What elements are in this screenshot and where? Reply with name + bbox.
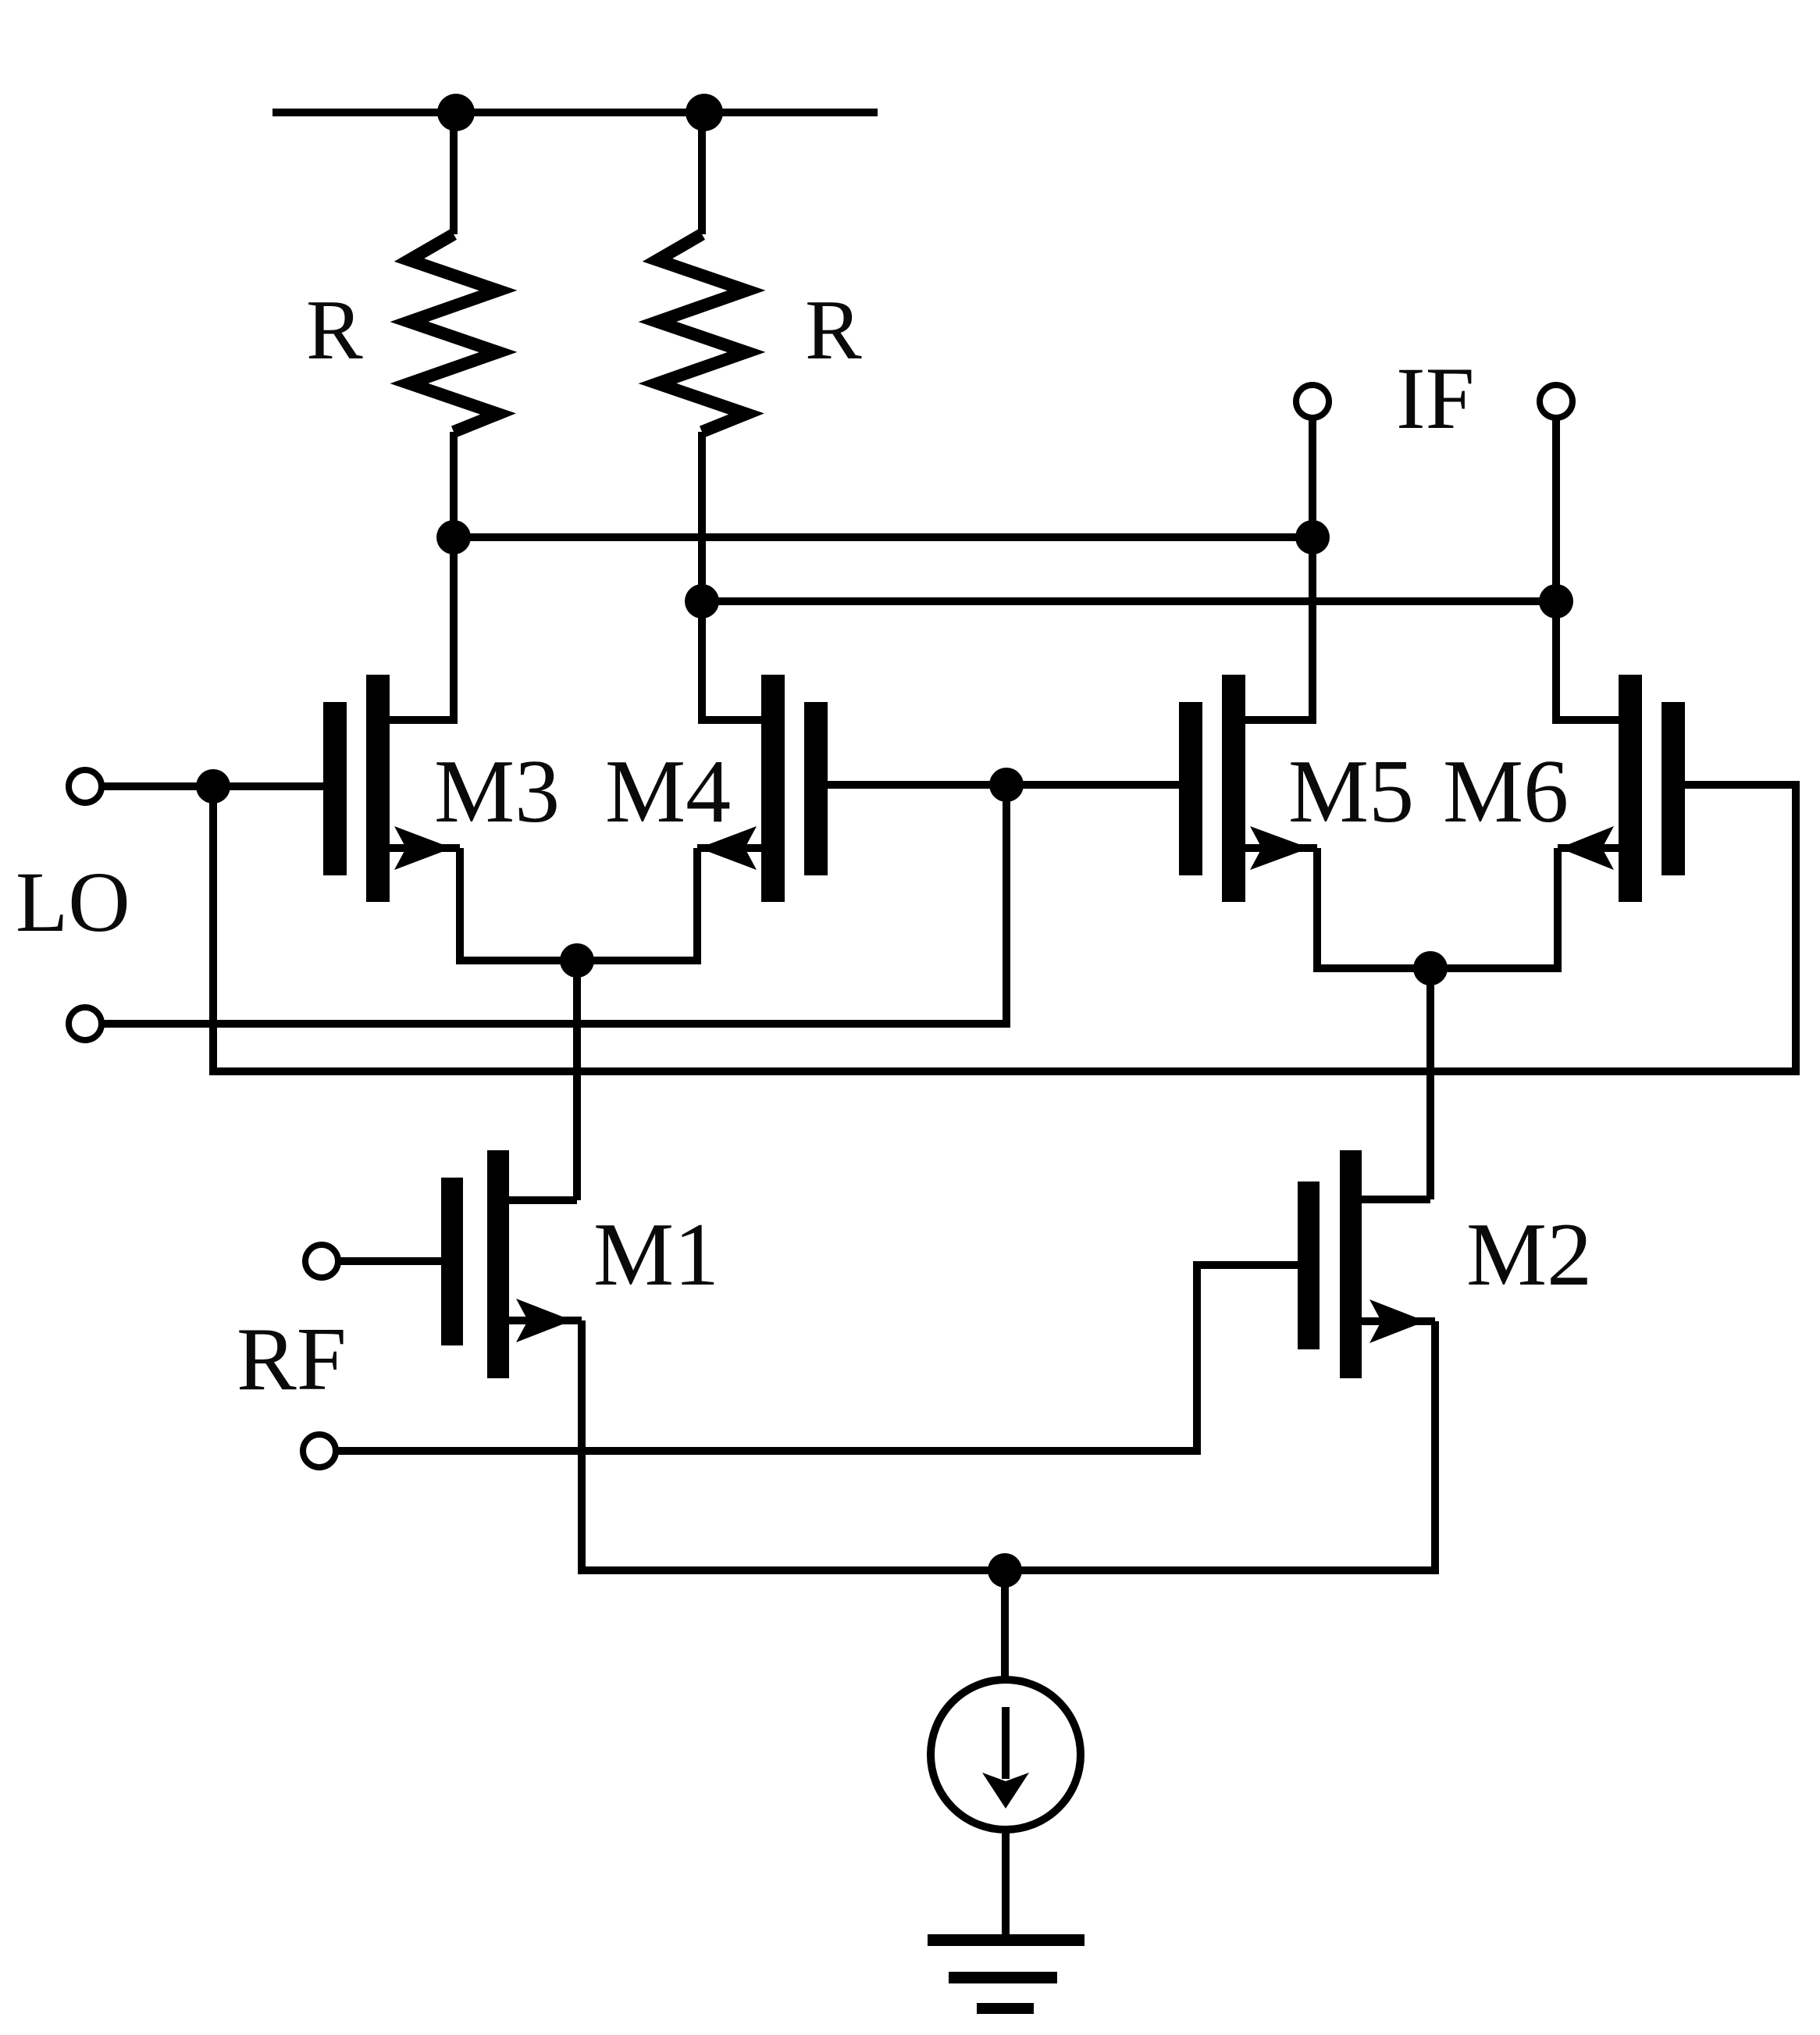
node IF+ junction <box>1539 584 1573 618</box>
node IF- junction <box>1295 520 1330 554</box>
svg-text:M6: M6 <box>1443 742 1569 842</box>
svg-text:M2: M2 <box>1466 1205 1592 1305</box>
node LO+ junction <box>196 769 230 804</box>
svg-text:IF: IF <box>1396 350 1474 447</box>
terminal RF+ <box>305 1245 338 1278</box>
svg-text:M3: M3 <box>434 742 560 842</box>
node LO- gate junction <box>989 768 1024 802</box>
wire VDD top rail <box>272 109 878 116</box>
svg-text:RF: RF <box>237 1310 347 1409</box>
current source I1 <box>931 1680 1081 1830</box>
svg-text:R: R <box>805 283 862 377</box>
wire M4 drain <box>702 601 761 720</box>
wire M2 source <box>1005 1321 1435 1570</box>
terminal IF- <box>1296 385 1329 418</box>
wire M5 source <box>1317 848 1430 968</box>
node R1 bottom junction <box>436 520 471 554</box>
wire LO+ lead <box>102 782 323 790</box>
transistor M3 <box>323 675 460 902</box>
resistor R1 <box>409 112 498 537</box>
wire RF- lead to M2 gate <box>337 1265 1298 1451</box>
transistor M6 <box>1558 675 1685 902</box>
node R2 bottom junction <box>685 584 719 618</box>
wire IF+ bus line <box>702 597 1556 605</box>
terminal LO+ <box>69 770 102 803</box>
wire M6 drain <box>1556 601 1619 720</box>
svg-text:R: R <box>306 283 363 377</box>
transistor M5 <box>1006 675 1317 902</box>
terminal LO- <box>69 1007 102 1040</box>
wire RF+ lead <box>339 1257 441 1265</box>
svg-text:LO: LO <box>16 854 130 950</box>
ground <box>928 1934 1085 2014</box>
wire IF- bus line <box>454 533 1312 541</box>
svg-text:M4: M4 <box>605 742 731 842</box>
node VDD-R1 junction <box>437 94 475 131</box>
transistor M1 <box>441 1150 582 1378</box>
node M3-M4 common source <box>560 943 594 978</box>
wire tail to current source <box>1001 1570 1009 1680</box>
wire M3 drain <box>390 537 454 720</box>
wire LO- lead <box>102 785 1006 1024</box>
terminal IF+ <box>1540 385 1572 418</box>
wire M3 source <box>460 848 577 960</box>
wire current source to ground <box>1002 1830 1010 1938</box>
wire IF- terminal lead <box>1309 419 1316 537</box>
transistor M4 <box>697 675 1006 902</box>
node VDD-R2 junction <box>686 94 723 131</box>
wire M1 source <box>582 1320 1434 1570</box>
resistor R2 <box>657 112 746 601</box>
node tail junction <box>988 1553 1022 1588</box>
wire M5 drain <box>1245 537 1312 720</box>
wire quad-left to M1 drain <box>573 960 581 1200</box>
node M5-M6 common source <box>1413 951 1448 985</box>
svg-text:M1: M1 <box>593 1205 719 1305</box>
svg-text:M5: M5 <box>1288 742 1414 842</box>
wire M6 source <box>1430 848 1558 968</box>
wire LO+ down branch <box>213 785 1796 1071</box>
wire IF+ terminal lead <box>1552 419 1560 601</box>
wire M4 source <box>577 848 697 960</box>
transistor M2 <box>1298 1150 1435 1378</box>
wire quad-right to M2 drain <box>1426 968 1434 1199</box>
terminal RF- <box>303 1434 336 1467</box>
